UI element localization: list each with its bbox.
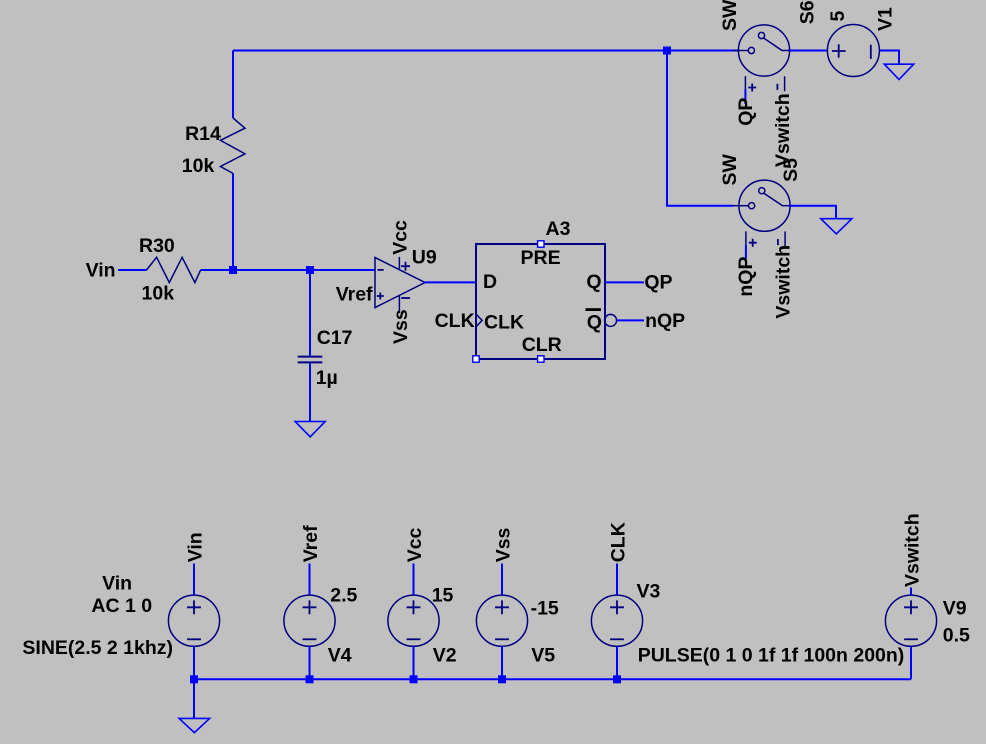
wire V5 top stub [501, 564, 503, 596]
svg-text:C17: C17 [317, 327, 353, 349]
pin Qbar with bubble [586, 310, 617, 334]
svg-text:QP: QP [644, 272, 672, 294]
svg-text:QP: QP [735, 98, 757, 126]
svg-text:nQP: nQP [645, 310, 685, 332]
wire V2 top stub [413, 564, 415, 596]
svg-text:V4: V4 [328, 645, 352, 667]
wire junction down to S5 [667, 51, 733, 206]
wire top horizontal from R14 top to switches [233, 50, 739, 52]
svg-text:Vin: Vin [86, 259, 116, 281]
wire Vin source to bus [193, 646, 195, 679]
node junction C17/main wire [306, 266, 314, 274]
voltage source V1 [827, 7, 896, 77]
node junction top right [663, 47, 671, 55]
svg-text:SW: SW [719, 0, 741, 31]
svg-text:Vswitch: Vswitch [772, 93, 794, 167]
svg-text:Vref: Vref [300, 525, 322, 562]
svg-text:R30: R30 [139, 235, 175, 257]
svg-text:CLK: CLK [484, 311, 524, 333]
svg-text:CLK: CLK [607, 522, 629, 562]
ground bottom [179, 718, 210, 732]
wire R14 top lead [232, 51, 234, 119]
capacitor C17 [298, 327, 353, 389]
svg-text:15: 15 [432, 584, 454, 606]
node junction bus 3 [410, 675, 418, 683]
wire S6 control + [744, 89, 746, 104]
svg-text:AC 1 0: AC 1 0 [91, 595, 152, 617]
node junction bus 4 [498, 675, 506, 683]
svg-text:V3: V3 [637, 581, 661, 603]
switch S6 [719, 0, 819, 92]
svg-text:A3: A3 [546, 218, 571, 240]
svg-text:5: 5 [827, 11, 849, 22]
svg-text:S6: S6 [797, 0, 819, 24]
svg-text:SINE(2.5 2 1khz): SINE(2.5 2 1khz) [22, 637, 173, 659]
svg-text:Q: Q [587, 312, 602, 334]
voltage source Vin (AC) [22, 572, 219, 659]
svg-text:Vin: Vin [184, 532, 206, 562]
resistor R30 [139, 235, 201, 304]
wire bottom ground stem [193, 679, 195, 718]
svg-text:S5: S5 [780, 158, 802, 182]
svg-text:Vswitch: Vswitch [772, 245, 794, 319]
wire S6 to V1 [790, 50, 828, 52]
wire V3 to bus [616, 646, 618, 679]
wire S5 to ground [790, 206, 836, 219]
svg-text:D: D [483, 271, 497, 293]
pin CLR [522, 334, 562, 362]
ground V1 [884, 64, 913, 79]
svg-text:-15: -15 [531, 597, 559, 619]
svg-text:SW: SW [719, 153, 741, 185]
wire V3 top stub [616, 564, 618, 596]
node junction R14/main wire [229, 266, 237, 274]
wire V2 to bus [413, 646, 415, 679]
ground below C17 [295, 422, 325, 437]
voltage source V9 [885, 595, 970, 646]
svg-text:Vin: Vin [102, 572, 132, 594]
svg-text:Vcc: Vcc [390, 220, 412, 255]
wire V9 to bus [910, 646, 912, 679]
svg-text:Vswitch: Vswitch [901, 513, 923, 587]
wire R14 bottom lead [232, 173, 234, 270]
svg-text:10k: 10k [182, 155, 215, 177]
svg-text:V1: V1 [874, 7, 896, 31]
wire S5 control + [745, 245, 747, 260]
svg-text:Vcc: Vcc [404, 527, 426, 562]
svg-text:V2: V2 [433, 645, 457, 667]
pin CLK with wedge [473, 311, 524, 362]
svg-text:Q: Q [586, 271, 601, 293]
svg-text:PULSE(0 1 0 1f 1f 100n 200n): PULSE(0 1 0 1f 1f 100n 200n) [638, 644, 905, 666]
svg-text:U9: U9 [412, 247, 437, 269]
switch S5 [719, 153, 802, 246]
wire V5 to bus [501, 646, 503, 679]
svg-text:10k: 10k [142, 282, 175, 304]
wire C17 top lead [309, 270, 311, 356]
svg-text:1µ: 1µ [316, 367, 338, 389]
wire C17 bottom lead [309, 363, 311, 421]
op-amp U9 [375, 247, 437, 314]
svg-text:V5: V5 [531, 645, 555, 667]
resistor R14 [182, 118, 245, 177]
wire V1 to ground [879, 51, 899, 65]
node junction bus 5 [613, 675, 621, 683]
svg-text:CLK: CLK [435, 310, 475, 332]
voltage source V4 [284, 584, 358, 666]
svg-text:CLR: CLR [522, 334, 562, 356]
node junction bus 1 [190, 675, 198, 683]
wire main horizontal to op-amp [201, 269, 375, 271]
svg-text:R14: R14 [185, 123, 221, 145]
wire bottom bus [194, 678, 911, 680]
wire op-amp output to D input [425, 281, 476, 283]
svg-text:V9: V9 [943, 598, 967, 620]
wire Qbar output [617, 319, 644, 321]
wire Vin source top stub [193, 564, 195, 596]
pin PRE [521, 241, 561, 269]
wire V9 top stub [910, 588, 912, 596]
wire V4 to bus [309, 646, 311, 679]
svg-text:Vref: Vref [336, 284, 373, 306]
voltage source V5 [476, 595, 559, 666]
svg-text:nQP: nQP [735, 257, 757, 297]
svg-text:PRE: PRE [521, 247, 561, 269]
node junction bus 2 [306, 675, 314, 683]
svg-text:2.5: 2.5 [330, 584, 357, 606]
ground S5 [821, 219, 852, 234]
voltage source V3 [591, 581, 904, 667]
voltage source V2 [388, 584, 457, 666]
svg-text:Vss: Vss [390, 309, 412, 344]
svg-text:Vss: Vss [492, 527, 514, 562]
svg-text:0.5: 0.5 [943, 624, 970, 646]
wire Q output [605, 281, 644, 283]
flip-flop A3 box [476, 218, 605, 359]
wire Vin lead [118, 269, 147, 271]
wire V4 top stub [309, 564, 311, 596]
